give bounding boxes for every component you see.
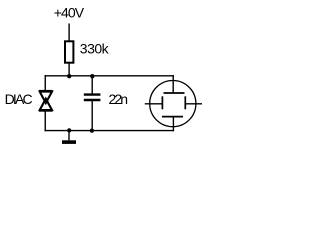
ground stem — [68, 131, 70, 141]
junction dot node A (C top) — [90, 74, 94, 78]
junction dot node A (R1 bottom) — [67, 74, 71, 78]
wire DIAC to bottom rail — [44, 111, 46, 132]
tube V1 envelope circle — [150, 81, 196, 127]
svg-text:330k: 330k — [80, 41, 110, 57]
svg-text:DIAC: DIAC — [5, 91, 33, 107]
capacitor C1 22n bottom plate — [84, 99, 101, 101]
svg-text:+40V: +40V — [54, 5, 85, 21]
wire supply to R1 — [68, 24, 70, 42]
top rail wire — [45, 75, 174, 77]
svg-text:22n: 22n — [109, 91, 128, 107]
tube left electrode bar — [161, 96, 163, 109]
tube left lead — [145, 103, 163, 105]
wire C1 to bottom rail — [91, 101, 93, 131]
wire R1 to node A — [68, 63, 70, 76]
ground bar — [62, 140, 76, 144]
resistor R1 330k — [65, 41, 73, 62]
tube top electrode bar — [164, 92, 185, 94]
capacitor C1 22n top plate — [84, 93, 101, 95]
junction dot C bottom — [90, 128, 94, 132]
tube bottom lead to rail — [172, 117, 174, 132]
tube bottom electrode bar — [162, 116, 183, 118]
tube right lead — [185, 103, 202, 105]
bottom rail wire — [45, 130, 175, 132]
tube right electrode bar — [184, 96, 186, 109]
junction dot ground node — [67, 128, 71, 132]
tube top lead from rail — [172, 75, 174, 93]
wire node A to C1 — [91, 76, 93, 93]
DIAC D1 — [39, 91, 53, 111]
wire top rail to DIAC — [44, 75, 46, 91]
